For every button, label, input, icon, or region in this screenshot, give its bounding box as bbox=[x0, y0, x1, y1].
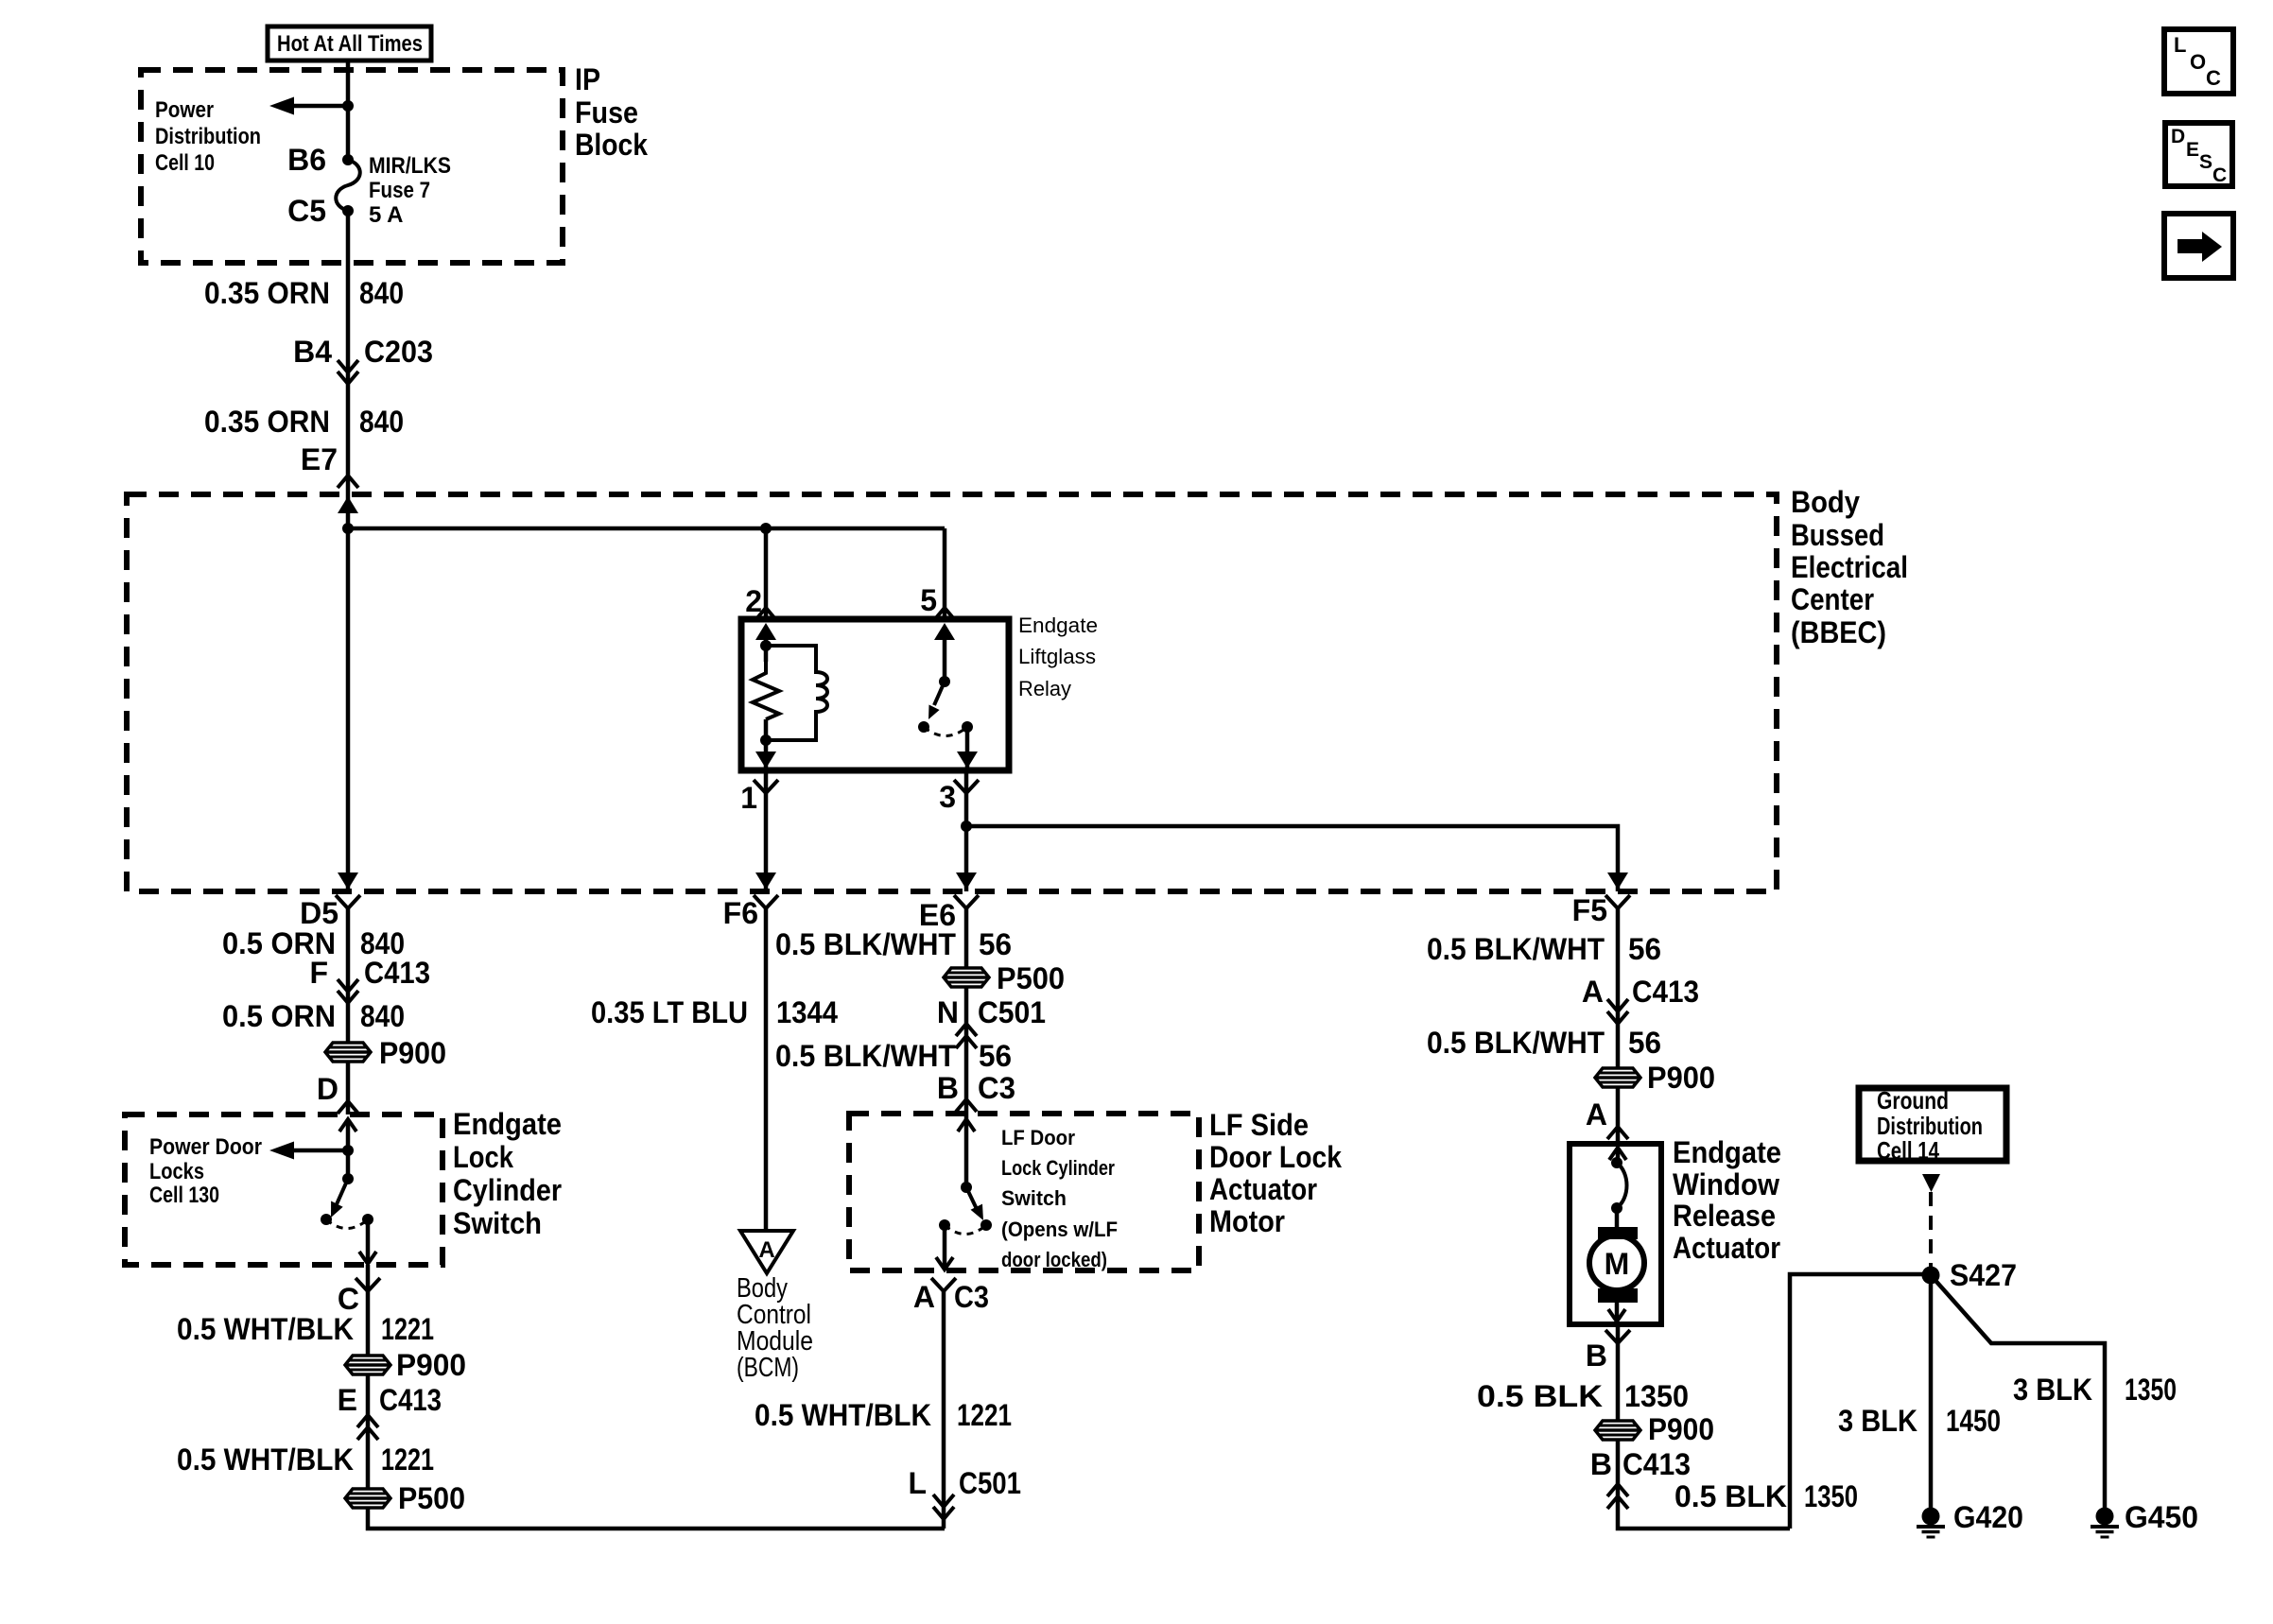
dashed throw arc bbox=[326, 1219, 368, 1229]
svg-text:0.5 BLK/WHT: 0.5 BLK/WHT bbox=[1427, 932, 1605, 966]
svg-text:S427: S427 bbox=[1950, 1258, 2017, 1292]
svg-text:Power: Power bbox=[155, 97, 214, 123]
pass-through connector P500 bbox=[944, 968, 989, 987]
svg-text:A: A bbox=[758, 1237, 774, 1263]
wire: branch to Power Door Locks bbox=[286, 1149, 348, 1153]
svg-text:Endgate: Endgate bbox=[453, 1107, 562, 1141]
svg-text:Hot At All Times: Hot At All Times bbox=[277, 31, 423, 57]
dashed throw arc bbox=[945, 1225, 986, 1235]
svg-text:F: F bbox=[309, 956, 328, 990]
svg-text:1350: 1350 bbox=[1804, 1479, 1858, 1513]
wire from motor to box bottom bbox=[1615, 1303, 1620, 1322]
wire: relay pin 5 drop bbox=[943, 528, 947, 619]
wire from contact down out of LF box bbox=[943, 1225, 947, 1270]
svg-text:B: B bbox=[1586, 1339, 1607, 1373]
pin 3 bbox=[954, 780, 979, 793]
svg-text:1344: 1344 bbox=[776, 995, 838, 1029]
relay switch contacts bbox=[918, 721, 929, 733]
svg-text:1350: 1350 bbox=[1624, 1379, 1689, 1413]
svg-text:A: A bbox=[1582, 975, 1604, 1009]
svg-text:LF Door: LF Door bbox=[1001, 1126, 1075, 1149]
svg-text:IP: IP bbox=[575, 62, 600, 96]
svg-text:3 BLK: 3 BLK bbox=[1838, 1404, 1917, 1438]
arrow entering LF box bbox=[958, 1119, 975, 1132]
svg-text:G450: G450 bbox=[2125, 1500, 2198, 1534]
svg-text:3 BLK: 3 BLK bbox=[2013, 1373, 2092, 1407]
svg-text:840: 840 bbox=[360, 999, 405, 1033]
svg-text:Switch: Switch bbox=[453, 1206, 542, 1240]
pass-through connector P900 bbox=[1595, 1068, 1640, 1087]
arrow out of coil to pin 1 bbox=[755, 752, 776, 769]
svg-text:O: O bbox=[2190, 50, 2206, 74]
svg-text:N: N bbox=[937, 995, 959, 1029]
connector fork C bbox=[356, 1278, 380, 1291]
relay switch common from pin 5 bbox=[934, 623, 955, 640]
svg-text:56: 56 bbox=[979, 1039, 1012, 1073]
svg-text:(Opens w/LF: (Opens w/LF bbox=[1001, 1218, 1118, 1241]
svg-text:Cylinder: Cylinder bbox=[453, 1173, 562, 1207]
junction dot bbox=[342, 100, 354, 112]
svg-text:1450: 1450 bbox=[1946, 1404, 2001, 1438]
wire inside box bbox=[346, 1119, 351, 1179]
LF switch pivot bbox=[961, 1182, 972, 1193]
LF switch arm bbox=[966, 1187, 977, 1209]
svg-text:C203: C203 bbox=[364, 335, 433, 369]
svg-text:door locked): door locked) bbox=[1001, 1248, 1107, 1271]
svg-text:Fuse 7: Fuse 7 bbox=[369, 178, 430, 203]
wire: fuse output down to BBEC bbox=[346, 211, 351, 528]
svg-text:0.5 BLK/WHT: 0.5 BLK/WHT bbox=[775, 1039, 956, 1073]
svg-text:Center: Center bbox=[1791, 582, 1874, 616]
Endgate Lock Cylinder Switch dashed box bbox=[125, 1114, 442, 1265]
LOC icon box bbox=[2164, 29, 2233, 94]
relay coil branch entering pin 2 bbox=[755, 623, 776, 640]
svg-text:(BCM): (BCM) bbox=[737, 1353, 799, 1383]
actuator switch curve bbox=[1611, 1157, 1622, 1168]
wire: bus inside BBEC bbox=[348, 527, 945, 531]
svg-text:Electrical: Electrical bbox=[1791, 550, 1908, 584]
svg-text:Switch: Switch bbox=[1001, 1186, 1067, 1210]
svg-text:S: S bbox=[2199, 151, 2212, 173]
ground G450 bbox=[2091, 1508, 2119, 1538]
BCM triangle terminal A bbox=[740, 1231, 793, 1273]
svg-text:Body: Body bbox=[1791, 485, 1860, 519]
wire up to S427 bbox=[1790, 1274, 1931, 1529]
svg-text:840: 840 bbox=[359, 276, 404, 310]
wire S427 down to G420 bbox=[1929, 1275, 1934, 1509]
svg-text:Release: Release bbox=[1673, 1199, 1776, 1233]
svg-text:0.5 BLK: 0.5 BLK bbox=[1477, 1379, 1603, 1413]
LF Door Lock Cylinder Switch dashed box bbox=[849, 1114, 1199, 1270]
wire S427 to G450 bbox=[1931, 1275, 2105, 1509]
connector D5 fork bbox=[336, 895, 360, 908]
dashed throw arc bbox=[924, 727, 967, 736]
svg-text:0.5 BLK: 0.5 BLK bbox=[1674, 1479, 1787, 1513]
svg-text:Distribution: Distribution bbox=[155, 124, 261, 149]
svg-text:0.5 ORN: 0.5 ORN bbox=[222, 999, 336, 1033]
wire F5 down into actuator bbox=[1616, 908, 1621, 1147]
svg-text:Liftglass: Liftglass bbox=[1018, 645, 1096, 668]
pass-through connector P900 bbox=[1595, 1421, 1640, 1440]
svg-text:E7: E7 bbox=[301, 442, 338, 476]
connector fork B below actuator bbox=[1605, 1330, 1630, 1343]
svg-text:Door Lock: Door Lock bbox=[1209, 1140, 1342, 1174]
splice S427 bbox=[1922, 1267, 1940, 1285]
svg-text:LF Side: LF Side bbox=[1209, 1108, 1309, 1142]
svg-text:C: C bbox=[2206, 66, 2221, 90]
svg-text:C501: C501 bbox=[959, 1466, 1021, 1500]
svg-text:0.5 BLK/WHT: 0.5 BLK/WHT bbox=[775, 927, 956, 961]
svg-text:C5: C5 bbox=[287, 194, 326, 228]
svg-text:C3: C3 bbox=[978, 1071, 1015, 1105]
pass-through connector P500 bbox=[345, 1489, 390, 1508]
wire: branch to F5 bbox=[966, 826, 1618, 891]
wire: main feed down through BBEC bbox=[346, 528, 351, 891]
relay switch arm bbox=[934, 682, 945, 705]
svg-text:C413: C413 bbox=[1622, 1447, 1691, 1481]
svg-text:1221: 1221 bbox=[381, 1312, 434, 1346]
pin 1 bbox=[754, 780, 778, 793]
ground G420 bbox=[1917, 1508, 1945, 1538]
IP Fuse Block dashed box bbox=[141, 70, 563, 263]
wire: hot feed from Hot At All Times down bbox=[346, 60, 351, 160]
svg-text:Actuator: Actuator bbox=[1673, 1231, 1780, 1265]
arrow entering BBEC at E7 bbox=[338, 496, 358, 513]
svg-text:840: 840 bbox=[359, 405, 404, 439]
svg-text:P900: P900 bbox=[396, 1348, 466, 1382]
junction dot on pin 3 wire bbox=[961, 821, 972, 832]
svg-text:5 A: 5 A bbox=[369, 202, 403, 228]
svg-text:P500: P500 bbox=[997, 961, 1065, 995]
forward arrow icon box bbox=[2164, 214, 2233, 278]
wire down to bottom bus bbox=[942, 1291, 946, 1529]
svg-text:Endgate: Endgate bbox=[1018, 613, 1098, 637]
relay coil bbox=[766, 646, 827, 740]
svg-text:C413: C413 bbox=[364, 956, 430, 990]
svg-text:(BBEC): (BBEC) bbox=[1791, 615, 1886, 649]
svg-text:Bussed: Bussed bbox=[1791, 518, 1884, 552]
svg-text:C413: C413 bbox=[1632, 975, 1699, 1009]
svg-text:P500: P500 bbox=[398, 1481, 465, 1515]
svg-text:0.35 ORN: 0.35 ORN bbox=[204, 276, 330, 310]
svg-text:0.35 LT BLU: 0.35 LT BLU bbox=[591, 995, 748, 1029]
pass-through connector P900 bbox=[325, 1043, 371, 1062]
arrow to Power Distribution bbox=[269, 97, 294, 115]
svg-text:Fuse: Fuse bbox=[575, 95, 638, 130]
svg-text:C413: C413 bbox=[379, 1383, 442, 1417]
DESC icon box bbox=[2165, 123, 2232, 186]
BBEC dashed box bbox=[127, 494, 1777, 891]
svg-text:Block: Block bbox=[575, 128, 648, 162]
lock switch arm bbox=[337, 1179, 348, 1204]
svg-text:C3: C3 bbox=[954, 1280, 989, 1314]
wire: relay pin 2 drop bbox=[764, 528, 769, 619]
label box: Hot At All Times bbox=[268, 26, 431, 60]
wire from NO contact to pin 3 bbox=[965, 727, 970, 770]
LF switch contacts bbox=[939, 1219, 950, 1231]
svg-text:D: D bbox=[317, 1072, 338, 1106]
svg-text:C: C bbox=[2212, 164, 2227, 186]
lock switch pivot bbox=[342, 1173, 354, 1184]
svg-text:P900: P900 bbox=[379, 1036, 446, 1070]
svg-text:1: 1 bbox=[740, 781, 757, 815]
svg-text:E: E bbox=[2186, 139, 2199, 161]
svg-text:M: M bbox=[1605, 1247, 1630, 1281]
svg-text:L: L bbox=[2174, 33, 2186, 57]
triangle terminal below Ground Distribution bbox=[1922, 1174, 1940, 1192]
svg-text:B: B bbox=[1590, 1447, 1612, 1481]
svg-text:Lock Cylinder: Lock Cylinder bbox=[1001, 1156, 1115, 1180]
arrow entering actuator box bbox=[1609, 1148, 1626, 1160]
svg-text:Locks: Locks bbox=[149, 1159, 204, 1184]
svg-text:1350: 1350 bbox=[2125, 1373, 2177, 1407]
svg-text:1221: 1221 bbox=[381, 1443, 434, 1477]
svg-text:Ground: Ground bbox=[1877, 1086, 1949, 1114]
svg-text:F5: F5 bbox=[1572, 893, 1607, 927]
svg-text:B: B bbox=[937, 1071, 959, 1105]
wire D5 down to Endgate Lock box bbox=[346, 908, 351, 1114]
svg-text:56: 56 bbox=[1628, 1026, 1661, 1060]
relay resistor bbox=[753, 646, 779, 719]
wire E6 down into LF box bbox=[964, 908, 969, 1187]
svg-text:0.5 WHT/BLK: 0.5 WHT/BLK bbox=[177, 1312, 354, 1346]
svg-text:P900: P900 bbox=[1648, 1412, 1714, 1446]
svg-text:B6: B6 bbox=[287, 143, 326, 177]
fuse MIR/LKS Fuse 7 5 A bbox=[342, 154, 354, 165]
svg-text:Power Door: Power Door bbox=[149, 1134, 262, 1160]
svg-text:5: 5 bbox=[920, 583, 937, 617]
wire inside to switch bbox=[1616, 1148, 1621, 1163]
svg-text:Cell 130: Cell 130 bbox=[149, 1183, 219, 1208]
Ground Distribution Cell 14 box bbox=[1859, 1088, 2006, 1161]
svg-text:E: E bbox=[338, 1383, 357, 1417]
svg-text:0.5 WHT/BLK: 0.5 WHT/BLK bbox=[755, 1398, 931, 1432]
svg-text:Cell 10: Cell 10 bbox=[155, 150, 215, 176]
dashed wire to S427 bbox=[1929, 1192, 1933, 1270]
svg-text:Actuator: Actuator bbox=[1209, 1172, 1317, 1206]
svg-text:Relay: Relay bbox=[1018, 677, 1071, 700]
svg-text:0.35 ORN: 0.35 ORN bbox=[204, 405, 330, 439]
svg-text:Lock: Lock bbox=[453, 1140, 513, 1174]
svg-text:L: L bbox=[908, 1466, 927, 1500]
svg-text:Cell 14: Cell 14 bbox=[1877, 1136, 1939, 1165]
svg-text:56: 56 bbox=[979, 927, 1012, 961]
svg-text:Endgate: Endgate bbox=[1673, 1135, 1781, 1169]
wire to motor bbox=[1615, 1208, 1620, 1228]
svg-text:P900: P900 bbox=[1647, 1061, 1715, 1095]
connector F5 fork bbox=[1605, 895, 1630, 908]
svg-text:G420: G420 bbox=[1953, 1500, 2023, 1534]
motor M bbox=[1589, 1235, 1644, 1290]
svg-text:A: A bbox=[913, 1280, 935, 1314]
wire below lock switch to bottom bus bbox=[368, 1265, 945, 1529]
pass-through connector P900 bbox=[345, 1356, 390, 1374]
svg-text:56: 56 bbox=[1628, 932, 1661, 966]
svg-text:Motor: Motor bbox=[1209, 1204, 1285, 1238]
svg-text:MIR/LKS: MIR/LKS bbox=[369, 153, 451, 179]
svg-text:0.5 BLK/WHT: 0.5 BLK/WHT bbox=[1427, 1026, 1605, 1060]
svg-text:C501: C501 bbox=[978, 995, 1046, 1029]
wire F6 down to BCM bbox=[764, 908, 769, 1231]
svg-text:3: 3 bbox=[939, 780, 956, 814]
connector C3 pin A below LF box bbox=[931, 1278, 956, 1291]
connector F6 fork bbox=[754, 895, 778, 908]
svg-text:A: A bbox=[1586, 1097, 1607, 1132]
svg-text:Window: Window bbox=[1673, 1167, 1779, 1201]
svg-text:0.5 WHT/BLK: 0.5 WHT/BLK bbox=[177, 1443, 354, 1477]
wire B down to bus bbox=[1618, 1324, 1790, 1529]
svg-text:C: C bbox=[338, 1282, 359, 1316]
svg-text:1221: 1221 bbox=[957, 1398, 1012, 1432]
wire from contact down out of box bbox=[366, 1219, 371, 1264]
lock switch contacts bbox=[321, 1214, 332, 1225]
connector E6 fork bbox=[954, 895, 979, 908]
relay K: Endgate Liftglass Relay box bbox=[741, 619, 1009, 770]
svg-text:D5: D5 bbox=[300, 896, 338, 930]
arrow entering lock switch box bbox=[339, 1119, 356, 1132]
svg-text:B4: B4 bbox=[293, 335, 332, 369]
svg-text:D: D bbox=[2171, 126, 2185, 147]
Endgate Window Release Actuator box bbox=[1570, 1144, 1661, 1324]
svg-text:F6: F6 bbox=[723, 896, 758, 930]
wire: branch to Power Distribution bbox=[286, 104, 348, 109]
